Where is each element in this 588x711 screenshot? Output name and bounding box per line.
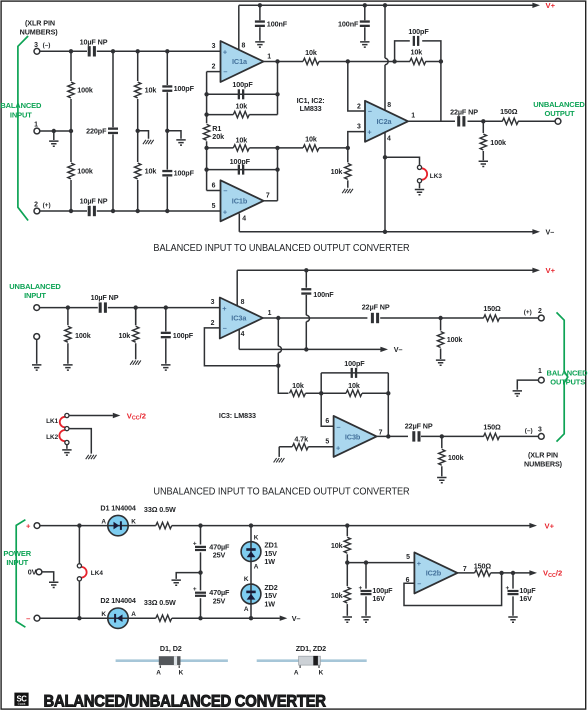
- ground (out+ 100k): [436, 360, 445, 365]
- node out-/100k: [440, 434, 444, 438]
- svg-text:–: –: [337, 422, 341, 431]
- signal ground (10k): [130, 360, 141, 364]
- node terminal1/ground: [52, 129, 56, 133]
- svg-text:10k: 10k: [305, 48, 317, 57]
- svg-text:1: 1: [538, 368, 542, 375]
- node IC2a- input: [346, 59, 350, 63]
- svg-text:25V: 25V: [213, 596, 226, 605]
- node feedback/output junction top: [439, 59, 443, 63]
- wire 4.7k to signal ground: [278, 447, 280, 457]
- svg-text:25V: 25V: [213, 551, 226, 560]
- svg-text:10k: 10k: [331, 167, 343, 176]
- svg-text:8: 8: [241, 299, 245, 306]
- wire IC2b pin6 feedback loop: [404, 573, 502, 606]
- wire IC1a output row: [264, 60, 441, 62]
- svg-text:8: 8: [387, 102, 391, 109]
- svg-text:3: 3: [538, 427, 542, 434]
- svg-text:©2008: ©2008: [18, 702, 26, 706]
- svg-text:100pF: 100pF: [174, 84, 195, 93]
- wire IC2a output row: [408, 120, 555, 122]
- legend D1, D2 package: [116, 644, 228, 677]
- svg-text:10k: 10k: [305, 134, 317, 143]
- svg-text:NUMBERS): NUMBERS): [20, 27, 59, 36]
- ground (10uF): [508, 617, 517, 622]
- node out+/100k: [438, 316, 442, 320]
- svg-text:SC: SC: [16, 694, 27, 703]
- svg-text:2: 2: [212, 64, 216, 71]
- svg-text:–: –: [26, 614, 30, 623]
- svg-text:10k: 10k: [235, 102, 247, 111]
- svg-text:ZD1, ZD2: ZD1, ZD2: [296, 644, 326, 653]
- resistor 10k (lower): [135, 163, 157, 211]
- ground (100pF): [161, 365, 170, 370]
- svg-text:D1, D2: D1, D2: [160, 644, 182, 653]
- wire IC3a pin2 loop: [204, 328, 278, 366]
- wire feedback right vertical (IC1a): [277, 61, 279, 114]
- signal ground (IC2a+): [342, 189, 353, 193]
- wire node to IC2a pin3: [348, 132, 365, 148]
- wire IC3a pin8 to rail: [236, 270, 238, 306]
- node output/feedback: [276, 316, 280, 320]
- node V+ row/LK4: [77, 523, 81, 527]
- node V+ row/ZD1: [249, 523, 253, 527]
- wire divider to IC2b pin5: [347, 562, 414, 564]
- svg-text:(+): (+): [43, 202, 51, 209]
- resistor 10k (IC1a out to IC2a-): [303, 48, 319, 65]
- diode D2 symbol: [114, 614, 122, 623]
- resistor R1 20k: [203, 124, 224, 141]
- svg-text:10k: 10k: [331, 591, 343, 600]
- ground (output 100k): [479, 161, 488, 166]
- wire IC1b pin6: [207, 190, 221, 192]
- op-amp IC2b: [414, 552, 457, 593]
- wire input row A: [40, 50, 221, 52]
- svg-text:INPUT: INPUT: [6, 558, 28, 567]
- svg-text:A: A: [131, 611, 136, 618]
- wire 0V to ground: [42, 572, 54, 581]
- capacitor 100pF (input): [136, 308, 194, 364]
- terminal (input shield): [34, 334, 40, 340]
- ground (100uF): [361, 617, 370, 622]
- wire IC3a pin4 to V-: [238, 329, 240, 349]
- node output/feedback: [499, 571, 503, 575]
- svg-text:LM833: LM833: [300, 104, 322, 113]
- svg-text:K: K: [131, 519, 136, 526]
- svg-text:2: 2: [211, 320, 215, 327]
- node IC1a output/feedback: [275, 59, 279, 63]
- svg-text:+: +: [223, 207, 227, 216]
- svg-text:K: K: [101, 611, 106, 618]
- V- line (section 2): [239, 347, 388, 352]
- svg-text:22µF NP: 22µF NP: [450, 108, 478, 117]
- resistor 150R (out +): [483, 304, 501, 321]
- svg-text:100k: 100k: [77, 86, 93, 95]
- ground (LK2 bottom): [62, 450, 71, 455]
- svg-text:K: K: [254, 534, 259, 541]
- wire input row: [40, 307, 220, 309]
- svg-text:UNBALANCED INPUT TO BALANCED O: UNBALANCED INPUT TO BALANCED OUTPUT CONV…: [153, 486, 409, 498]
- node row A / 100k: [69, 49, 73, 53]
- node row D / 100k: [69, 209, 73, 213]
- node loop right/output: [386, 434, 390, 438]
- node pin6/100pF branch: [204, 167, 208, 171]
- capacitor 100pF (IC1b feedback): [207, 157, 278, 174]
- wire IC2a pin8 to rail (with hop over feedback line): [385, 5, 388, 111]
- resistor 10k (IC2a feedback): [410, 48, 426, 65]
- ground (lower divider): [343, 617, 352, 622]
- svg-text:NUMBERS): NUMBERS): [524, 459, 563, 468]
- svg-text:33Ω 0.5W: 33Ω 0.5W: [144, 505, 176, 514]
- svg-text:IC1a: IC1a: [232, 57, 248, 66]
- svg-text:6: 6: [325, 418, 329, 425]
- wire input row D: [40, 210, 221, 212]
- ground (100pF columns): [176, 140, 185, 145]
- svg-text:–: –: [223, 186, 227, 195]
- svg-text:(–): (–): [525, 428, 533, 435]
- op-amp IC1b: [221, 180, 264, 221]
- wire IC3b loop right vertical: [387, 373, 389, 437]
- diode D1 1N4004 (circle): [108, 515, 128, 535]
- SC logo box: [14, 693, 28, 706]
- svg-text:1W: 1W: [264, 600, 275, 609]
- svg-text:10µF NP: 10µF NP: [80, 196, 108, 205]
- node 100pF column mid: [165, 129, 169, 133]
- node row D / 10k: [136, 209, 140, 213]
- node V+ row/470uF: [198, 523, 202, 527]
- resistor 100k (lower input): [68, 163, 93, 211]
- svg-text:10k: 10k: [145, 167, 157, 176]
- node V- row/ZD2: [249, 616, 253, 620]
- svg-text:100pF: 100pF: [344, 359, 365, 368]
- svg-text:150Ω: 150Ω: [483, 304, 501, 313]
- V+ rail (section 2): [237, 268, 540, 273]
- node V- row/LK4: [77, 616, 81, 620]
- svg-text:V–: V–: [546, 228, 555, 237]
- svg-text:22µF NP: 22µF NP: [405, 422, 433, 431]
- resistor 100k (upper input): [68, 51, 93, 162]
- node right vertical/100pF: [275, 92, 279, 96]
- svg-text:100pF: 100pF: [173, 331, 194, 340]
- svg-text:A: A: [156, 669, 161, 676]
- ground (100k): [63, 365, 72, 370]
- svg-text:POWER: POWER: [3, 549, 31, 558]
- node row A / 10k: [136, 49, 140, 53]
- terminal unbalanced output: [555, 118, 561, 124]
- node V- line/100nF: [304, 347, 308, 351]
- svg-text:4: 4: [241, 331, 245, 338]
- resistor 10k (input): [118, 308, 138, 360]
- svg-text:100k: 100k: [77, 167, 93, 176]
- svg-text:LK3: LK3: [430, 173, 443, 180]
- svg-text:150Ω: 150Ω: [474, 562, 492, 571]
- svg-text:100k: 100k: [448, 453, 464, 462]
- node rail/100nF: [304, 268, 308, 272]
- signal ground (LK2): [86, 455, 97, 459]
- terminal unbalanced input: [34, 305, 40, 311]
- resistor 100k (out - load): [439, 436, 464, 476]
- svg-text:+: +: [26, 521, 31, 530]
- terminal +: [34, 523, 40, 529]
- svg-text:V+: V+: [546, 1, 556, 10]
- svg-text:4: 4: [242, 215, 246, 222]
- svg-text:10k: 10k: [292, 381, 304, 390]
- node wire/100uF: [364, 560, 368, 564]
- ground (470uF mid): [172, 580, 181, 585]
- ZD2 symbol: [246, 591, 255, 600]
- svg-text:150Ω: 150Ω: [483, 422, 501, 431]
- svg-text:–: –: [417, 579, 421, 588]
- label ZD2 15V 1W: [264, 583, 277, 609]
- svg-text:1W: 1W: [264, 557, 275, 566]
- svg-text:2: 2: [357, 103, 361, 110]
- svg-text:100nF: 100nF: [338, 19, 359, 28]
- wire feedback right vertical (IC1b): [277, 148, 279, 201]
- svg-text:10k: 10k: [331, 541, 343, 550]
- ground (100nF right): [360, 42, 369, 47]
- node V- row/470uF: [198, 616, 202, 620]
- link LK4: [77, 526, 103, 619]
- svg-text:IC2a: IC2a: [376, 117, 392, 126]
- svg-text:7: 7: [266, 192, 270, 199]
- node right vertical/100pF (IC1b): [275, 167, 279, 171]
- node 470uF mid/ground: [198, 570, 202, 574]
- op-amp IC3b: [334, 416, 377, 457]
- green brace BALANCED OUTPUTS: [557, 312, 568, 441]
- svg-text:100pF: 100pF: [174, 169, 195, 178]
- zener ZD1 15V 1W (circle): [241, 542, 261, 562]
- ZD1 symbol: [246, 548, 255, 557]
- svg-text:100pF: 100pF: [408, 27, 429, 36]
- wire IC3b loop left vertical: [321, 373, 333, 426]
- svg-text:22µF NP: 22µF NP: [362, 303, 390, 312]
- ground (out- 100k): [437, 478, 446, 483]
- svg-text:BALANCED: BALANCED: [0, 101, 42, 110]
- svg-text:1: 1: [267, 54, 271, 61]
- ground (output 1): [513, 391, 522, 396]
- node output/100k: [481, 119, 485, 123]
- svg-text:5: 5: [212, 203, 216, 210]
- terminal 1: [34, 128, 40, 134]
- node IC1b out row: [275, 146, 279, 150]
- svg-text:1: 1: [411, 113, 415, 120]
- node pin2/10k branch: [204, 112, 208, 116]
- svg-text:100pF: 100pF: [232, 80, 253, 89]
- svg-text:10k: 10k: [348, 381, 360, 390]
- feedback left vertical (IC1a/IC1b): [206, 72, 208, 191]
- wire IC1b out row to IC2a pin3 network: [278, 147, 348, 149]
- svg-text:OUTPUT: OUTPUT: [545, 109, 576, 118]
- resistor 10k (lower divider): [331, 587, 351, 616]
- wire IC2b output row: [457, 570, 537, 575]
- svg-text:10k: 10k: [235, 136, 247, 145]
- svg-text:LK1: LK1: [46, 418, 59, 425]
- node: rail/100nF C: [258, 3, 262, 7]
- wire terminal 1 to ground: [517, 380, 538, 390]
- node divider mid: [345, 560, 349, 564]
- green bracket BALANCED INPUT: [18, 36, 28, 221]
- svg-text:220pF: 220pF: [86, 126, 107, 135]
- svg-text:20k: 20k: [212, 132, 224, 141]
- diode D2 1N4004 (circle): [108, 608, 128, 628]
- svg-text:10µF NP: 10µF NP: [80, 38, 108, 47]
- feedback vertical (IC3a out, with hop over V- line): [278, 318, 288, 393]
- resistor 10k (IC2a+ to signal gnd): [331, 148, 351, 188]
- resistor 10k (upper, to signal gnd): [135, 51, 157, 162]
- svg-text:BALANCED: BALANCED: [547, 368, 588, 377]
- capacitor 220pF (across inputs): [86, 51, 118, 211]
- svg-text:1: 1: [34, 122, 38, 129]
- svg-text:INPUT: INPUT: [24, 291, 46, 300]
- capacitor 100pF (IC2a feedback): [395, 27, 441, 121]
- svg-text:100k: 100k: [447, 335, 463, 344]
- svg-text:A: A: [294, 669, 299, 676]
- svg-text:BALANCED INPUT TO UNBALANCED O: BALANCED INPUT TO UNBALANCED OUTPUT CONV…: [153, 243, 409, 255]
- node V- rail / IC2a pin4: [383, 230, 387, 234]
- capacitor 22uF NP (out -): [405, 422, 433, 442]
- capacitor 100pF (lower input): [162, 131, 194, 211]
- resistor 150R (output): [500, 107, 518, 124]
- node output/10uF: [511, 571, 515, 575]
- wire 10k column jog to signal ground: [138, 131, 149, 139]
- node feedback tap: [392, 59, 396, 63]
- svg-text:+: +: [506, 585, 510, 592]
- zener ZD2 15V 1W (circle): [241, 584, 261, 604]
- wire V- row (section 3): [40, 616, 287, 621]
- wire IC1b output: [264, 200, 278, 202]
- resistor 10k (IC3b input): [290, 381, 389, 396]
- svg-text:+: +: [359, 585, 363, 592]
- svg-text:K: K: [244, 576, 249, 583]
- label ZD1 15V 1W: [264, 540, 277, 566]
- node pin6/10k branch: [204, 146, 208, 150]
- svg-text:A: A: [254, 563, 259, 570]
- capacitor 100nF (right decoupling): [338, 5, 370, 41]
- node 10k column mid: [136, 129, 140, 133]
- svg-text:0V: 0V: [28, 568, 37, 577]
- svg-text:+: +: [223, 47, 227, 56]
- svg-text:OUTPUTS: OUTPUTS: [550, 377, 585, 386]
- node: rail/IC2a pin8: [383, 3, 387, 7]
- svg-text:33Ω 0.5W: 33Ω 0.5W: [144, 598, 176, 607]
- wire IC2a pin4 to V- rail: [384, 132, 386, 232]
- wire V+ row (section 3): [40, 523, 537, 528]
- svg-text:V–: V–: [394, 345, 403, 354]
- svg-text:D1 1N4004: D1 1N4004: [100, 504, 136, 513]
- resistor 100k (input bias): [65, 308, 91, 364]
- svg-text:+: +: [367, 128, 371, 137]
- signal ground (4.7k): [274, 458, 285, 462]
- op-amp IC3a: [220, 298, 263, 339]
- svg-text:4.7k: 4.7k: [294, 435, 308, 444]
- svg-text:3: 3: [357, 124, 361, 131]
- node loop right: [386, 391, 390, 395]
- svg-text:3: 3: [211, 299, 215, 306]
- signal ground (10k columns): [143, 140, 154, 144]
- svg-text:A: A: [244, 606, 249, 613]
- svg-text:8: 8: [241, 42, 245, 49]
- svg-text:V+: V+: [546, 266, 556, 275]
- resistor 33R 0.5W (top): [144, 505, 176, 529]
- svg-text:4: 4: [387, 135, 391, 142]
- wire ZD column: [250, 526, 252, 619]
- link LK1/LK2 block: [46, 413, 69, 444]
- svg-text:(XLR PIN: (XLR PIN: [528, 451, 558, 460]
- terminal -: [34, 615, 40, 621]
- wire IC1a pin2: [207, 71, 221, 73]
- node input/100pF: [164, 305, 168, 309]
- node pin4/LK3: [383, 155, 387, 159]
- resistor 10k (IC1b feedback): [207, 136, 278, 151]
- svg-text:+: +: [193, 540, 197, 547]
- svg-text:(XLR PIN: (XLR PIN: [25, 19, 55, 28]
- svg-text:100k: 100k: [75, 331, 91, 340]
- resistor 150R (out -): [483, 422, 501, 439]
- wire 470uF mid to ground: [176, 573, 200, 579]
- node V+ row/10k: [345, 523, 349, 527]
- ground (LK3): [415, 190, 424, 195]
- svg-text:100k: 100k: [490, 138, 506, 147]
- svg-text:3: 3: [34, 42, 38, 49]
- svg-text:IC2b: IC2b: [426, 569, 442, 578]
- node pin2/100pF branch: [204, 92, 208, 96]
- svg-text:V–: V–: [292, 614, 301, 623]
- svg-text:+: +: [417, 559, 421, 568]
- svg-text:–: –: [223, 324, 227, 333]
- capacitor 22uF NP (output): [450, 108, 478, 127]
- node IC2a+ input: [346, 146, 350, 150]
- node pin2 loop / feedback vertical: [276, 364, 280, 368]
- svg-text:UNBALANCED: UNBALANCED: [9, 282, 61, 291]
- wire shield terminal to ground: [36, 339, 38, 363]
- resistor 33R 0.5W (bottom): [144, 598, 176, 622]
- capacitor 100nF (left decoupling): [255, 5, 288, 41]
- svg-text:LK2: LK2: [46, 434, 59, 441]
- node input/10k: [134, 305, 138, 309]
- wire IC3a output row: [263, 317, 539, 319]
- svg-text:D2 1N4004: D2 1N4004: [100, 596, 136, 605]
- resistor 100k (output load): [480, 121, 506, 160]
- svg-text:IC3b: IC3b: [345, 433, 361, 442]
- node 100k column / terminal1 wire: [69, 129, 73, 133]
- svg-text:1: 1: [268, 310, 272, 317]
- wire terminal 1 to 100k column: [40, 130, 71, 132]
- resistor 10k (IC1a feedback): [207, 102, 278, 118]
- svg-text:+: +: [222, 304, 226, 313]
- svg-text:LK4: LK4: [91, 570, 104, 577]
- svg-text:5: 5: [406, 554, 410, 561]
- svg-text:BALANCED/UNBALANCED CONVERTER: BALANCED/UNBALANCED CONVERTER: [44, 693, 326, 711]
- svg-text:–: –: [368, 107, 372, 116]
- svg-text:A: A: [101, 519, 106, 526]
- svg-text:UNBALANCED: UNBALANCED: [533, 100, 585, 109]
- node row A / 100pF: [165, 49, 169, 53]
- resistor 4.7k (IC3b+): [279, 435, 333, 450]
- svg-text:3: 3: [212, 43, 216, 50]
- svg-text:V+: V+: [545, 521, 555, 530]
- capacitor 10uF NP (input): [91, 293, 119, 313]
- ground (shield): [32, 365, 41, 370]
- node row D / 100pF: [165, 209, 169, 213]
- capacitor 100nF (section 2, with hop over output): [301, 270, 334, 349]
- node: rail/100nF D: [363, 3, 367, 7]
- svg-text:7: 7: [379, 429, 383, 436]
- node row D / 220pF: [111, 209, 115, 213]
- svg-text:K: K: [319, 669, 324, 676]
- diode D1 symbol: [114, 521, 122, 530]
- resistor 10k (upper divider): [331, 526, 351, 587]
- terminal 0V: [36, 569, 42, 575]
- capacitor 10uF NP (row A): [80, 38, 108, 57]
